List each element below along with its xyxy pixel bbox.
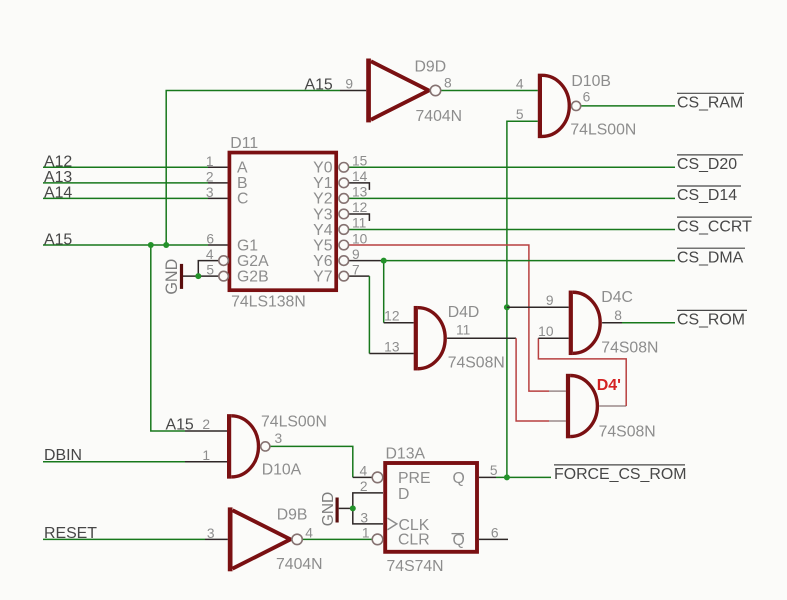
inverter D9D <box>366 59 440 123</box>
svg-text:FORCE_CS_ROM: FORCE_CS_ROM <box>554 466 686 483</box>
wire net DBIN to D10A pin 1 <box>43 461 227 463</box>
node junction at D11 GND <box>195 273 201 279</box>
D13A PRE and CLR bubbles <box>372 472 383 545</box>
svg-text:4: 4 <box>360 464 368 479</box>
svg-text:A15: A15 <box>166 417 194 434</box>
wire D9B output to D13A CLR pin 1 <box>302 538 372 540</box>
wire net A13 <box>43 182 228 184</box>
svg-text:8: 8 <box>614 308 622 323</box>
wire D10B pin 5 vertical net <box>507 121 538 477</box>
svg-text:D9D: D9D <box>415 59 447 76</box>
wire D10A output to D13A PRE pin 4 <box>270 446 372 477</box>
svg-text:DBIN: DBIN <box>44 447 82 464</box>
net label CS_DMA <box>677 248 745 266</box>
wire Y6 to CS_DMA and D4D pin 12 <box>349 261 675 323</box>
D11 output bubbles Y0-Y7 <box>339 163 349 281</box>
svg-text:CS_DMA: CS_DMA <box>677 249 744 266</box>
svg-text:74LS138N: 74LS138N <box>231 294 306 311</box>
pin numbers D4C <box>538 293 622 339</box>
svg-text:PRE: PRE <box>398 470 430 487</box>
svg-text:1: 1 <box>202 448 210 463</box>
pin numbers D11 right <box>352 154 368 278</box>
svg-text:A13: A13 <box>44 169 72 186</box>
svg-text:74S08N: 74S08N <box>599 424 656 441</box>
wire Y1 stub pin 14 <box>349 183 370 190</box>
svg-text:CS_RAM: CS_RAM <box>677 95 743 112</box>
svg-text:9: 9 <box>352 247 360 262</box>
svg-text:Y4: Y4 <box>313 222 333 239</box>
svg-text:8: 8 <box>444 76 452 91</box>
wire D9D output to D10B pin 4 <box>441 90 538 92</box>
svg-text:5: 5 <box>490 463 498 478</box>
net label CS_D14 <box>677 186 741 204</box>
svg-text:12: 12 <box>352 200 367 215</box>
D13A Qbar overline <box>452 533 465 535</box>
ground symbol at D11 G2A/G2B <box>180 264 183 289</box>
svg-text:74S08N: 74S08N <box>601 340 658 357</box>
svg-text:A14: A14 <box>44 185 72 202</box>
wire Y3 stub pin 12 <box>349 214 370 221</box>
svg-text:RESET: RESET <box>44 525 97 542</box>
wire Y0 to CS_D20 <box>349 166 675 168</box>
svg-text:CS_D14: CS_D14 <box>677 187 737 204</box>
D13A inner pin names <box>398 470 465 549</box>
pin numbers D10A <box>202 417 282 463</box>
svg-text:13: 13 <box>384 339 400 354</box>
wire Y5 red net to D4' upper input <box>349 245 566 391</box>
svg-text:Y0: Y0 <box>313 160 333 177</box>
net label CS_CCRT <box>677 217 752 235</box>
wire Y4 to CS_CCRT <box>349 229 675 231</box>
svg-text:3: 3 <box>360 511 368 526</box>
svg-text:CS_CCRT: CS_CCRT <box>677 218 752 235</box>
svg-text:Y1: Y1 <box>313 175 333 192</box>
wire net A15 branch down to D10A pin 2 <box>151 245 227 431</box>
wire D13A D pin 2 and CLK pin 3 tie to GND <box>339 493 383 524</box>
svg-text:G1: G1 <box>237 237 258 254</box>
svg-text:6: 6 <box>583 90 591 105</box>
wire D4D output pin 11 red net to D4' lower input <box>447 338 566 421</box>
svg-text:7: 7 <box>352 262 360 277</box>
svg-text:Q: Q <box>453 532 465 549</box>
svg-text:10: 10 <box>352 231 368 246</box>
wire net RESET to D9B pin 3 <box>43 538 228 540</box>
svg-text:4: 4 <box>206 247 214 262</box>
svg-text:D10B: D10B <box>571 73 611 90</box>
svg-text:A: A <box>237 160 248 177</box>
svg-text:13: 13 <box>352 185 368 200</box>
svg-text:11: 11 <box>352 216 366 231</box>
svg-text:D4': D4' <box>597 377 621 394</box>
svg-text:3: 3 <box>206 185 214 200</box>
svg-text:7404N: 7404N <box>416 108 463 125</box>
svg-text:CS_D20: CS_D20 <box>677 156 737 173</box>
wire net A15 horizontal to G1 <box>43 244 228 246</box>
svg-text:G2A: G2A <box>237 253 269 270</box>
svg-text:11: 11 <box>456 323 470 338</box>
wire D13A Qbar pin 6 stub <box>479 538 508 540</box>
svg-text:D: D <box>398 486 409 503</box>
svg-text:D4C: D4C <box>601 289 633 306</box>
IC D11 74LS138N box <box>229 153 336 291</box>
svg-text:15: 15 <box>352 154 368 169</box>
wire D4' output red net to D4C pin 10 <box>538 338 626 406</box>
node junction at Q output <box>504 474 510 480</box>
net label CS_ROM <box>677 310 747 328</box>
svg-text:14: 14 <box>352 169 368 184</box>
svg-text:CLR: CLR <box>398 532 430 549</box>
node A15 junction left <box>148 242 154 248</box>
wire D4C pin 9 input <box>507 306 569 308</box>
wire Y2 to CS_D14 <box>349 197 675 199</box>
wire net A12 <box>43 166 228 168</box>
nand gate D10A <box>227 414 270 479</box>
svg-text:3: 3 <box>207 526 215 541</box>
inverter D9B <box>228 507 302 571</box>
svg-text:4: 4 <box>516 76 524 91</box>
svg-text:74S08N: 74S08N <box>448 355 505 372</box>
pin numbers D9B <box>207 526 313 541</box>
svg-text:D11: D11 <box>230 135 258 152</box>
pin numbers D13A <box>360 463 499 541</box>
svg-text:CS_ROM: CS_ROM <box>677 312 745 329</box>
svg-text:Y3: Y3 <box>313 206 333 223</box>
svg-text:74S74N: 74S74N <box>387 558 444 575</box>
svg-text:9: 9 <box>345 77 353 92</box>
svg-text:GND: GND <box>320 492 337 526</box>
svg-text:D9B: D9B <box>277 507 308 524</box>
wire Y7 to D4D pin 13 <box>349 276 414 353</box>
ground symbol at D13A D/CLK <box>336 498 339 523</box>
svg-text:2: 2 <box>206 169 214 184</box>
svg-text:7404N: 7404N <box>276 556 323 573</box>
svg-text:10: 10 <box>538 324 554 339</box>
D11 inner pin names <box>237 160 333 286</box>
svg-text:74LS00N: 74LS00N <box>570 122 636 139</box>
svg-text:4: 4 <box>305 526 313 541</box>
svg-text:B: B <box>237 175 248 192</box>
nand gate D10B <box>538 74 581 138</box>
D13A CLK edge wedge <box>388 518 397 530</box>
node junction Y6 <box>381 258 387 264</box>
pin numbers D9D <box>345 76 452 92</box>
svg-text:A15: A15 <box>305 77 333 94</box>
svg-text:D10A: D10A <box>262 462 302 479</box>
wire D10B output to CS_RAM <box>581 105 675 107</box>
svg-text:5: 5 <box>206 263 214 278</box>
svg-text:A15: A15 <box>44 231 72 248</box>
svg-text:A12: A12 <box>44 154 72 171</box>
and gate D4' <box>566 374 597 439</box>
svg-text:Q: Q <box>453 470 465 487</box>
wire D11 G2A G2B tie to GND <box>183 261 219 277</box>
svg-text:9: 9 <box>546 293 554 308</box>
svg-text:Y2: Y2 <box>313 191 332 208</box>
svg-text:1: 1 <box>206 154 214 169</box>
svg-text:2: 2 <box>202 417 210 432</box>
svg-text:GND: GND <box>163 259 181 295</box>
svg-text:C: C <box>237 191 248 208</box>
pin numbers D4D <box>384 309 470 355</box>
svg-text:6: 6 <box>491 526 499 541</box>
node junction at D4C pin 9 <box>504 304 510 310</box>
svg-text:D13A: D13A <box>386 446 426 463</box>
svg-text:1: 1 <box>362 525 370 540</box>
svg-text:74LS00N: 74LS00N <box>261 413 327 430</box>
wire D13A Q output to FORCE_CS_ROM <box>479 476 551 478</box>
wire D4C output to CS_ROM <box>602 322 675 324</box>
svg-text:2: 2 <box>360 479 368 494</box>
net label CS_D20 <box>677 155 743 173</box>
and gate D4D <box>414 306 445 371</box>
svg-text:6: 6 <box>206 232 214 247</box>
D11 G2A G2B input bubbles <box>219 256 229 281</box>
pin numbers D11 left <box>206 154 215 278</box>
node A15 junction right <box>163 242 169 248</box>
wire net A14 <box>43 197 228 199</box>
node junction at D13A GND <box>350 505 356 511</box>
svg-text:G2B: G2B <box>237 268 269 285</box>
net label CS_RAM <box>677 93 744 111</box>
svg-text:3: 3 <box>275 431 283 446</box>
svg-text:Y7: Y7 <box>313 268 332 285</box>
and gate D4C <box>569 291 600 356</box>
wire net A15 branch up to D9D input <box>166 91 366 246</box>
flip-flop D13A 74S74N box <box>385 463 477 552</box>
svg-text:Y6: Y6 <box>313 253 333 270</box>
pin numbers D10B <box>516 76 591 122</box>
net label FORCE_CS_ROM <box>554 465 686 483</box>
svg-text:5: 5 <box>516 107 524 122</box>
svg-text:12: 12 <box>384 309 399 324</box>
svg-text:D4D: D4D <box>448 304 480 321</box>
svg-text:Y5: Y5 <box>313 237 333 254</box>
